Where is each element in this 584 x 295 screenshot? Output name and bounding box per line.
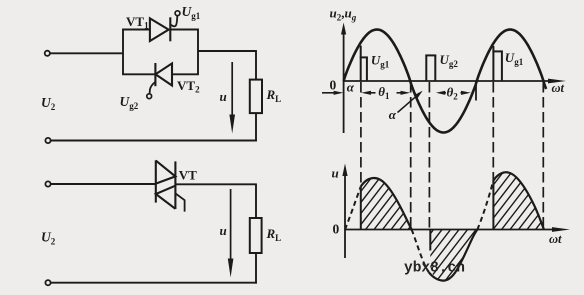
gate terminal Ug1 circle: [175, 11, 180, 16]
svg-text:U2: U2: [41, 95, 56, 112]
wire box bottom edge left segment: [122, 73, 155, 75]
svg-text:α: α: [347, 80, 355, 95]
firing vertical line second hump: [492, 181, 494, 230]
wire box bottom edge right segment: [172, 73, 199, 75]
dimension arrow into y-axis for alpha: [322, 92, 336, 94]
resistor RL (upper circuit): [250, 80, 262, 114]
firing vertical line negative lobe: [429, 230, 431, 251]
axis x upper chart: [344, 80, 550, 82]
wire upper-circuit output to load: [198, 50, 257, 52]
dashed line at last zero crossing (x=543.3): [542, 82, 544, 229]
hatching hump 1: [258, 158, 584, 292]
axis y upper chart: [343, 30, 345, 133]
gate terminal Ug2 circle: [147, 94, 152, 99]
wire right rail down to RL: [255, 51, 257, 80]
voltage arrow u (lower circuit): [230, 189, 232, 261]
wire upper-circuit left input: [50, 52, 123, 54]
svg-text:ybx8.cn: ybx8.cn: [404, 261, 465, 277]
svg-text:ωt: ωt: [552, 81, 565, 95]
wire lower-circuit left input: [51, 183, 156, 185]
output hump 2 solid curve: [493, 172, 544, 229]
output hump 1 solid curve: [361, 178, 412, 230]
gate pulse Ug1 first: [360, 46, 362, 82]
svg-text:Ug1: Ug1: [182, 4, 201, 21]
triac VT lower triangle: [156, 186, 176, 209]
svg-text:RL: RL: [266, 226, 282, 243]
resistor RL (lower circuit): [250, 218, 262, 253]
thyristor VT1 cathode bar: [169, 17, 171, 41]
wire box top edge right segment: [170, 29, 199, 31]
terminal bottom-left of upper circuit: [45, 138, 50, 143]
wire right rail down to RL (lower): [255, 184, 257, 218]
dashed sine segment before second positive firing: [477, 181, 493, 230]
thyristor VT1 gate lead: [170, 16, 177, 27]
svg-text:θ1: θ1: [378, 84, 390, 101]
node box left edge: [122, 30, 124, 75]
svg-text:Ug2: Ug2: [120, 94, 139, 111]
svg-text:Ug1: Ug1: [371, 53, 390, 70]
svg-text:U2: U2: [41, 230, 56, 247]
wire box top edge left segment: [122, 29, 150, 31]
dimension arrow theta2 left: [436, 91, 445, 95]
svg-text:θ2: θ2: [447, 85, 459, 102]
svg-text:VT: VT: [179, 168, 197, 183]
wire lower-circuit bottom return: [51, 282, 257, 284]
hatching hump 2: [258, 158, 584, 292]
gate pulse Ug2: [425, 55, 427, 81]
triac VT gate lead: [175, 193, 184, 211]
dashed line at firing angle alpha (x=361): [360, 82, 362, 186]
svg-text:0: 0: [333, 222, 340, 237]
voltage arrow u (upper circuit): [231, 62, 233, 117]
terminal top-left of lower circuit: [45, 181, 50, 186]
terminal top-left of upper circuit: [45, 51, 50, 56]
dashed line at second Ug1 firing (x=493.3): [492, 82, 494, 186]
hatching negative lobe: [258, 158, 584, 292]
svg-text:Ug2: Ug2: [440, 52, 459, 69]
wire RL to bottom rail (lower): [255, 253, 257, 284]
output negative lobe solid curve: [429, 230, 478, 281]
svg-text:VT2: VT2: [177, 78, 200, 95]
dimension end tick at x=476: [475, 85, 477, 101]
svg-text:u: u: [220, 89, 227, 104]
node box right edge: [197, 30, 199, 75]
wire upper-circuit bottom return: [51, 140, 257, 142]
triac VT right bar: [174, 161, 176, 209]
dashed line at first zero crossing (x=410.7): [410, 82, 412, 230]
axis y lower chart: [344, 172, 346, 258]
svg-text:ωt: ωt: [549, 232, 562, 246]
dashed sine segment before first firing: [345, 187, 361, 230]
wire RL to bottom rail: [255, 113, 257, 141]
triac VT upper triangle: [156, 161, 176, 184]
gate pulse Ug1 second: [492, 46, 494, 81]
thyristor VT1 triangle: [150, 18, 169, 41]
svg-text:RL: RL: [266, 87, 282, 104]
svg-text:u: u: [220, 223, 227, 238]
axis x lower chart: [345, 229, 554, 231]
svg-text:VT1: VT1: [126, 14, 149, 31]
dashed line at negative firing (x=429.4): [428, 82, 430, 229]
svg-text:u: u: [332, 166, 339, 181]
dimension arrow theta2 right: [461, 92, 463, 94]
dimension arrow theta1 left: [361, 91, 371, 95]
triac VT left bar: [155, 160, 157, 202]
wire lower-circuit output to load: [175, 183, 257, 185]
thyristor VT2 cathode bar: [154, 63, 156, 86]
svg-text:Ug1: Ug1: [505, 50, 524, 67]
firing vertical line first hump: [360, 187, 362, 230]
thyristor VT2 gate lead: [150, 82, 156, 94]
svg-text:α: α: [389, 107, 397, 122]
dashed sine segment falling before negative firing: [412, 230, 429, 273]
terminal bottom-left of lower circuit: [45, 280, 50, 285]
svg-text:0: 0: [330, 78, 337, 93]
sine wave u2 upper chart: [344, 30, 546, 133]
dimension arrow theta1 right: [397, 92, 402, 94]
thyristor VT2 triangle: [156, 63, 173, 85]
svg-text:u2,ug: u2,ug: [330, 6, 357, 23]
